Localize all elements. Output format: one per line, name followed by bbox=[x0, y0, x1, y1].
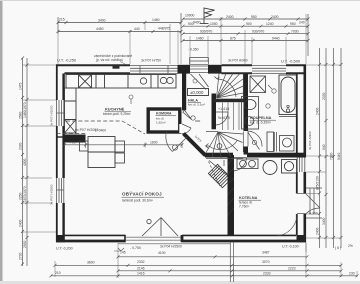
svg-text:±0,000: ±0,000 bbox=[190, 90, 204, 95]
diagonal wall hall/living room bbox=[184, 134, 206, 156]
staircase straight flight treads bbox=[223, 103, 240, 131]
boiler-room west wall bbox=[228, 155, 235, 236]
svg-text:3x P07 H/750: 3x P07 H/750 bbox=[141, 59, 161, 63]
svg-text:9400: 9400 bbox=[193, 21, 201, 25]
svg-text:700: 700 bbox=[70, 141, 76, 145]
svg-text:10900: 10900 bbox=[185, 14, 195, 18]
scanner bottom edge shadow bbox=[0, 281, 360, 284]
svg-text:1460: 1460 bbox=[196, 36, 204, 40]
fridge X in left counter bbox=[65, 120, 77, 134]
top-left dimension row2 bbox=[57, 30, 183, 33]
circled ref mark in hall bbox=[193, 79, 197, 83]
bottom-left wall corner patch bbox=[56, 235, 65, 242]
boiler circle bbox=[263, 160, 297, 175]
dining chair lower-right bbox=[115, 153, 125, 163]
wall vent block in top wall bbox=[113, 65, 120, 69]
svg-text:950: 950 bbox=[290, 22, 296, 26]
living room terrace door swing bbox=[142, 218, 178, 237]
north flag elevation symbol bbox=[200, 8, 215, 24]
bathroom sink counter bbox=[242, 97, 259, 130]
svg-text:KUCHYNĚ: KUCHYNĚ bbox=[105, 107, 125, 112]
top-right dimension row1 bbox=[182, 18, 310, 21]
svg-text:OBÝVACÍ POKOJ: OBÝVACÍ POKOJ bbox=[122, 190, 162, 197]
bottom-right wall corner patch bbox=[297, 235, 307, 242]
level box ±0,000 bbox=[188, 89, 209, 96]
scanner left edge strip bbox=[0, 0, 3, 284]
svg-text:laminát podl. 30,6m²: laminát podl. 30,6m² bbox=[122, 199, 154, 203]
svg-text:ker.dl. 5,1m²: ker.dl. 5,1m² bbox=[188, 103, 205, 107]
left wall upper segment bbox=[57, 65, 64, 101]
bottom lineA labels bbox=[120, 251, 270, 256]
right dimension line 2 bbox=[325, 48, 328, 248]
right wall upper segment bbox=[297, 65, 305, 156]
svg-text:1600: 1600 bbox=[150, 141, 158, 145]
svg-text:1050: 1050 bbox=[210, 22, 218, 26]
svg-text:3x P07 H/1000: 3x P07 H/1000 bbox=[50, 105, 54, 126]
svg-text:1870/1970: 1870/1970 bbox=[23, 186, 27, 202]
svg-text:3600: 3600 bbox=[87, 260, 95, 264]
svg-text:2400: 2400 bbox=[271, 15, 279, 19]
bathroom window in top wall bbox=[252, 66, 286, 74]
svg-text:U.T.-0,200: U.T.-0,200 bbox=[56, 246, 73, 250]
top wall segment stair to bathroom window bbox=[222, 65, 253, 73]
svg-text:ker. dl. 6,35m²: ker. dl. 6,35m² bbox=[250, 121, 272, 125]
top-right dimension row3 bbox=[182, 32, 310, 35]
svg-text:U.T.-0,100: U.T.-0,100 bbox=[282, 245, 299, 249]
svg-text:2400: 2400 bbox=[315, 107, 319, 115]
svg-text:2%: 2% bbox=[348, 244, 353, 248]
svg-text:3400: 3400 bbox=[98, 18, 106, 22]
svg-text:2400: 2400 bbox=[18, 219, 22, 227]
bathtub faucet bbox=[279, 105, 297, 116]
svg-text:L=0400: L=0400 bbox=[95, 129, 106, 133]
svg-text:875/2100: 875/2100 bbox=[315, 176, 319, 190]
pantry door opening in right wall bbox=[179, 124, 183, 133]
bottom lineD labels bbox=[55, 271, 355, 276]
top extension lines bbox=[58, 14, 306, 64]
left wall window lower bbox=[57, 178, 65, 203]
kitchen left counter column bbox=[65, 88, 77, 133]
svg-text:(p. viz níž. natížka): (p. viz níž. natížka) bbox=[96, 58, 123, 62]
svg-text:4100: 4100 bbox=[158, 251, 166, 255]
svg-text:2146: 2146 bbox=[137, 266, 145, 270]
left dimension line outer bbox=[21, 57, 24, 267]
svg-text:3487: 3487 bbox=[262, 251, 270, 255]
door hall to corridor swing bbox=[216, 112, 228, 125]
top-right dimension row4 bbox=[182, 39, 310, 42]
bathroom door opening + swing bbox=[248, 131, 262, 147]
svg-text:7030: 7030 bbox=[291, 30, 299, 34]
svg-text:440: 440 bbox=[134, 27, 140, 31]
svg-text:U.T. -0,500: U.T. -0,500 bbox=[281, 59, 301, 64]
svg-text:KOUPELNA: KOUPELNA bbox=[250, 116, 272, 120]
svg-text:1460/1970: 1460/1970 bbox=[23, 102, 27, 118]
boiler room door opening + swing bbox=[233, 158, 247, 172]
gutter note leader line bbox=[120, 62, 126, 65]
dining chair right bbox=[115, 141, 125, 152]
svg-text:2333: 2333 bbox=[263, 272, 271, 276]
staircase upper winder treads bbox=[217, 74, 244, 100]
boiler-room window in right wall bbox=[297, 157, 305, 173]
svg-text:9440: 9440 bbox=[337, 152, 341, 160]
entrance door swing leaves bbox=[191, 74, 209, 90]
left dim labels rotated bbox=[18, 82, 27, 260]
top-left row2 labels bbox=[96, 26, 170, 30]
svg-text:1,62m²: 1,62m² bbox=[156, 121, 166, 125]
circled ref mark in kitchen bbox=[129, 95, 133, 104]
pantry door swing bbox=[182, 124, 191, 134]
right dimension line 1 bbox=[318, 48, 321, 248]
top-left dimension row1 bbox=[57, 21, 183, 24]
stair landing edge bbox=[213, 99, 244, 102]
bottom dimension line D bbox=[50, 274, 359, 277]
svg-text:3400: 3400 bbox=[322, 217, 326, 225]
kitchen soffit dashed line bbox=[57, 121, 146, 134]
svg-text:940: 940 bbox=[322, 144, 326, 150]
svg-text:930/970: 930/970 bbox=[200, 30, 212, 34]
bottom extension lines bbox=[55, 243, 357, 278]
svg-text:1240: 1240 bbox=[266, 22, 274, 26]
kitchen upper cabinet row bbox=[66, 75, 176, 89]
bathroom west wall bbox=[244, 73, 249, 131]
bottom wall right segment bbox=[182, 235, 306, 242]
left wall window upper bbox=[57, 100, 65, 126]
bottom dimension line A bbox=[117, 255, 309, 258]
pantry KOMORA walls bbox=[148, 109, 180, 132]
svg-text:3070: 3070 bbox=[262, 260, 270, 264]
top wall right segment bbox=[286, 65, 306, 73]
terrace elevation tick mark bbox=[114, 248, 124, 251]
boiler-room west wall hatch marks bbox=[228, 158, 235, 215]
svg-text:4000: 4000 bbox=[23, 158, 27, 166]
kitchen stove circle bbox=[140, 78, 146, 84]
svg-text:- 0,750: - 0,750 bbox=[130, 246, 141, 250]
bottom dimension line C bbox=[117, 269, 343, 272]
svg-text:448/975: 448/975 bbox=[158, 26, 170, 30]
svg-text:2330: 2330 bbox=[18, 142, 22, 150]
svg-text:keram.podl. 9,25m²: keram.podl. 9,25m² bbox=[103, 112, 130, 116]
door in diagonal wall swing bbox=[166, 132, 187, 152]
toilet nook cabinet bbox=[267, 132, 274, 152]
pier right of entrance door bbox=[208, 65, 222, 74]
boiler-room sink circles bbox=[237, 159, 258, 169]
svg-text:900: 900 bbox=[195, 119, 200, 123]
entrance exterior steps bbox=[190, 58, 209, 65]
svg-text:2330: 2330 bbox=[322, 92, 326, 100]
kitchen/living partition stub wall bbox=[64, 135, 86, 143]
svg-text:- 0,350: - 0,350 bbox=[188, 48, 199, 52]
interior wall kitchen/hall bbox=[182, 73, 186, 110]
boiler-room door opening in right wall bbox=[297, 194, 306, 214]
svg-text:3x P0F A/900: 3x P0F A/900 bbox=[308, 131, 312, 150]
bottom lineC labels bbox=[137, 266, 296, 270]
door hall to kitchen leaf triangle bbox=[183, 110, 195, 120]
circled ref mark in bathroom 1 bbox=[268, 85, 276, 93]
boiler room interior door swing arc bbox=[276, 214, 297, 236]
circled ref mark in bathroom 2 bbox=[266, 104, 270, 108]
stair/hall stub wall bbox=[212, 94, 217, 130]
svg-text:1460: 1460 bbox=[152, 18, 160, 22]
dining table bbox=[88, 137, 115, 168]
toilet nook partition bbox=[274, 132, 276, 152]
boiler room exterior step bbox=[306, 188, 322, 218]
staircase lower walk-line arc with arrow bbox=[206, 140, 238, 150]
boiler room exterior door swing bbox=[306, 194, 320, 214]
scanner top edge line bbox=[0, 0, 360, 1]
right extension lines bbox=[306, 65, 341, 238]
svg-text:-0,300: -0,300 bbox=[308, 212, 318, 216]
svg-text:875: 875 bbox=[230, 36, 236, 40]
svg-text:950: 950 bbox=[251, 15, 257, 19]
svg-text:3x P07 A/900: 3x P07 A/900 bbox=[228, 59, 248, 63]
kitchen sink basins bbox=[160, 77, 173, 83]
svg-text:230: 230 bbox=[349, 272, 355, 276]
bottom lineB labels bbox=[87, 260, 270, 265]
terrace french-door opening in bottom wall bbox=[126, 237, 182, 240]
bathroom door leaf and knob bbox=[248, 132, 260, 150]
left wall middle segment bbox=[56, 126, 65, 178]
right wall lower segment bbox=[297, 214, 305, 242]
bottom dimension line B bbox=[54, 264, 343, 267]
left wall lower segment bbox=[57, 203, 64, 242]
top dims left vertical connector bbox=[58, 13, 181, 43]
right dim labels rotated bbox=[315, 92, 341, 235]
svg-text:2400: 2400 bbox=[226, 15, 234, 19]
top-right row4 labels bbox=[196, 36, 280, 40]
bathroom/boiler-room dividing wall right part bbox=[247, 153, 306, 158]
page corner detail scribbles bbox=[335, 244, 353, 250]
svg-text:2580: 2580 bbox=[18, 111, 22, 119]
top-right row1 labels bbox=[185, 14, 305, 25]
svg-text:2332: 2332 bbox=[137, 260, 145, 264]
svg-text:KOMORA: KOMORA bbox=[156, 112, 172, 116]
top-left row1 labels bbox=[59, 17, 160, 22]
fireplace hearth bbox=[209, 160, 229, 186]
top wall segment + pier left of entrance door bbox=[178, 65, 191, 74]
left dimension line inner bbox=[26, 58, 29, 266]
right dimension line 4 bbox=[340, 48, 343, 248]
svg-text:2223: 2223 bbox=[288, 266, 296, 270]
kitchen window in top wall bbox=[130, 66, 178, 74]
svg-text:2250: 2250 bbox=[18, 192, 22, 200]
svg-text:2400: 2400 bbox=[315, 227, 319, 235]
washing machine bbox=[280, 136, 295, 152]
kitchen corner cabinet with X bbox=[79, 75, 92, 88]
svg-text:4450: 4450 bbox=[96, 27, 104, 31]
right wall middle segment bbox=[297, 172, 305, 194]
bottom wall left segment bbox=[56, 235, 126, 242]
svg-text:240: 240 bbox=[299, 21, 305, 25]
dining chair left bbox=[80, 141, 89, 151]
terrace edge line below living room bbox=[118, 243, 230, 245]
top-right row3 labels bbox=[200, 30, 299, 34]
bathroom west wall lower stub bbox=[244, 147, 249, 155]
fireplace hatched chimney bbox=[208, 164, 231, 187]
staircase upper walk-line arc with arrow bbox=[215, 77, 237, 98]
svg-text:215: 215 bbox=[59, 17, 65, 21]
svg-text:9440: 9440 bbox=[272, 36, 280, 40]
svg-text:U.T. -0,250: U.T. -0,250 bbox=[57, 58, 77, 63]
towel radiator with diagonals bbox=[250, 76, 266, 93]
svg-text:930/970: 930/970 bbox=[252, 30, 264, 34]
svg-text:2930: 2930 bbox=[23, 240, 27, 248]
svg-text:210: 210 bbox=[55, 271, 61, 275]
staircase lower winder treads bbox=[206, 132, 243, 159]
svg-text:3x P07 H/1500: 3x P07 H/1500 bbox=[50, 184, 54, 205]
svg-text:7,76m²: 7,76m² bbox=[239, 205, 250, 209]
svg-text:+1,416: +1,416 bbox=[218, 107, 229, 111]
svg-text:1416: 1416 bbox=[137, 272, 145, 276]
svg-text:900: 900 bbox=[188, 22, 194, 26]
svg-text:900: 900 bbox=[246, 22, 252, 26]
svg-text:KOTELNA: KOTELNA bbox=[239, 196, 258, 200]
terrace side lines below boiler room bbox=[230, 243, 306, 283]
svg-text:( 6 ): ( 6 ) bbox=[335, 246, 341, 250]
svg-text:2730: 2730 bbox=[18, 252, 22, 260]
stair column post bbox=[217, 144, 222, 149]
top-right dimension row2 bbox=[182, 25, 310, 28]
svg-text:3x P04 H/2500: 3x P04 H/2500 bbox=[160, 245, 182, 249]
top dims right vertical connector bbox=[307, 14, 309, 56]
kitchen interior dimension line bbox=[63, 142, 184, 148]
bathroom/boiler-room dividing wall left part bbox=[205, 153, 233, 158]
svg-text:1475: 1475 bbox=[18, 82, 22, 90]
top-right row2 labels bbox=[188, 22, 296, 26]
bathtub bbox=[279, 75, 297, 115]
left extension lines bbox=[22, 65, 56, 232]
exterior top wall (double line, segment left of kitchen window) bbox=[56, 65, 130, 73]
right dimension line 3 bbox=[332, 48, 335, 248]
entrance door opening sill bbox=[190, 66, 208, 73]
